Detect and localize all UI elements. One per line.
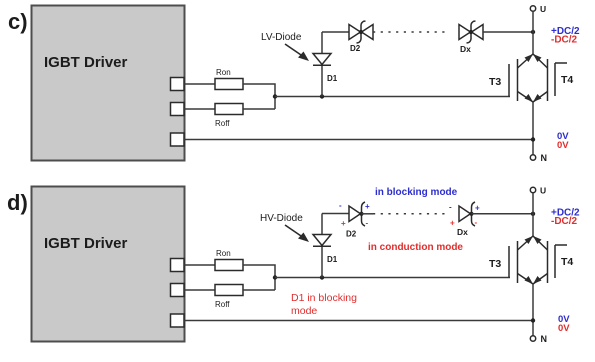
- svg-text:-: -: [366, 219, 369, 228]
- node chain to rail junction (d): [531, 212, 535, 216]
- wire U to junction (d): [532, 193, 534, 214]
- wire D1 branch vertical (d): [321, 214, 323, 278]
- junction dot gate node (c): [273, 94, 277, 98]
- svg-text:-: -: [449, 203, 452, 212]
- wire pin3 to 0V rail (d): [184, 320, 533, 322]
- label D1 in blocking mode (d): [291, 292, 357, 317]
- wire Roff to junction (c): [243, 108, 275, 110]
- diode D1 (c): [313, 54, 338, 84]
- wire gate node to T3 gate (d): [275, 277, 510, 279]
- label HV-Diode with arrow (d): [260, 213, 309, 242]
- svg-text:T4: T4: [561, 74, 573, 86]
- pin 1 Ron output (c): [171, 78, 185, 91]
- wire rail to T3/T4 collector node (d): [532, 214, 534, 236]
- wire Dx to DC rail (c): [483, 31, 533, 33]
- svg-text:U: U: [540, 4, 546, 14]
- pin 2 Roff output (c): [171, 103, 185, 116]
- wire pin1 to Ron (c): [184, 83, 215, 85]
- svg-text:IGBT Driver: IGBT Driver: [44, 54, 128, 71]
- transistor T3 (d): [489, 236, 533, 284]
- resistor Ron (d): [215, 249, 243, 271]
- terminal N (c): [530, 153, 547, 163]
- wire pin3 to 0V rail (c): [184, 139, 533, 141]
- svg-text:U: U: [540, 186, 546, 196]
- svg-text:+: +: [341, 219, 346, 228]
- node 0V junction (d): [531, 318, 535, 322]
- svg-text:in blocking mode: in blocking mode: [375, 187, 458, 198]
- wire D1 branch vertical (c): [321, 32, 323, 97]
- IGBT Driver box (d): [32, 187, 185, 342]
- node chain to rail junction (c): [531, 30, 535, 34]
- svg-text:D1 in blocking: D1 in blocking: [291, 292, 357, 304]
- svg-text:HV-Diode: HV-Diode: [260, 213, 303, 224]
- wire pin2 to Roff (c): [184, 108, 215, 110]
- diode D2 bidirectional (c): [349, 21, 373, 53]
- wire Roff to junction (d): [243, 289, 275, 291]
- svg-text:+: +: [365, 202, 370, 211]
- svg-text:T3: T3: [489, 76, 501, 88]
- svg-text:Dx: Dx: [460, 44, 471, 54]
- wire Ron to junction (c): [243, 84, 275, 109]
- wire T3/T4 emitter node to 0V rail (c): [532, 102, 534, 155]
- svg-text:LV-Diode: LV-Diode: [261, 32, 302, 43]
- diode Dx (d): [449, 202, 480, 237]
- pin 2 Roff output (d): [171, 284, 185, 297]
- terminal N (d): [530, 334, 547, 344]
- svg-text:Roff: Roff: [215, 119, 230, 128]
- svg-text:D2: D2: [350, 44, 361, 53]
- wire rail to T3/T4 collector node (c): [532, 32, 534, 54]
- svg-text:IGBT Driver: IGBT Driver: [44, 235, 128, 252]
- transistor T3 (c): [489, 54, 533, 102]
- svg-text:+: +: [450, 219, 455, 228]
- wire dashed D2 to Dx (d): [373, 213, 445, 215]
- wire Ron to junction (d): [243, 265, 275, 290]
- wire dashed D2 to Dx (c): [373, 31, 449, 33]
- wire D1 top to D2 (d): [322, 213, 349, 215]
- wire Dx to DC rail (d): [472, 213, 534, 215]
- wire gate node to T3 gate (c): [275, 96, 510, 98]
- svg-text:in conduction mode: in conduction mode: [368, 242, 463, 253]
- diode Dx bidirectional (c): [459, 21, 483, 54]
- svg-text:0V: 0V: [557, 140, 569, 151]
- svg-text:mode: mode: [291, 305, 317, 317]
- terminal U (d): [530, 186, 546, 196]
- resistor Roff (d): [215, 285, 243, 310]
- label LV-Diode with arrow (c): [261, 32, 309, 61]
- diode D2 (d): [339, 201, 370, 239]
- svg-text:Roff: Roff: [215, 300, 230, 309]
- svg-text:-: -: [339, 201, 342, 210]
- pin 3 emitter/0V (c): [171, 133, 185, 146]
- resistor Roff (c): [215, 104, 243, 129]
- svg-text:Dx: Dx: [457, 227, 468, 237]
- svg-text:-DC/2: -DC/2: [551, 35, 578, 46]
- svg-text:Ron: Ron: [216, 68, 231, 77]
- pin 3 emitter/0V (d): [171, 314, 185, 327]
- svg-text:D1: D1: [327, 74, 338, 83]
- svg-text:-DC/2: -DC/2: [551, 216, 578, 227]
- wire pin2 to Roff (d): [184, 289, 215, 291]
- transistor T4 (d): [533, 236, 573, 284]
- svg-text:D2: D2: [346, 230, 357, 239]
- svg-text:-: -: [475, 218, 478, 227]
- pin 1 Ron output (d): [171, 259, 185, 272]
- svg-text:T4: T4: [561, 256, 573, 268]
- wire D1 top to D2 (c): [322, 31, 349, 33]
- svg-text:T3: T3: [489, 258, 501, 270]
- node D1 bottom junction (d): [320, 275, 324, 279]
- diode D1 (d): [313, 235, 338, 265]
- svg-text:N: N: [541, 153, 548, 163]
- resistor Ron (c): [215, 68, 243, 90]
- svg-text:0V: 0V: [558, 323, 570, 334]
- svg-text:Ron: Ron: [216, 249, 231, 258]
- node 0V junction (c): [531, 137, 535, 141]
- svg-text:N: N: [541, 334, 548, 344]
- transistor T4 (c): [533, 54, 573, 102]
- svg-text:+: +: [475, 204, 480, 213]
- wire pin1 to Ron (d): [184, 264, 215, 266]
- svg-text:d): d): [7, 190, 28, 215]
- svg-text:D1: D1: [327, 255, 338, 264]
- junction dot gate node (d): [273, 275, 277, 279]
- svg-text:c): c): [8, 9, 28, 34]
- terminal U (c): [530, 4, 546, 14]
- wire T3/T4 emitter node to 0V rail (d): [532, 284, 534, 336]
- wire U to junction (c): [532, 11, 534, 32]
- IGBT Driver box (c): [32, 6, 185, 161]
- wire D2 to dashed (d): [362, 213, 374, 215]
- node D1 bottom junction (c): [320, 94, 324, 98]
